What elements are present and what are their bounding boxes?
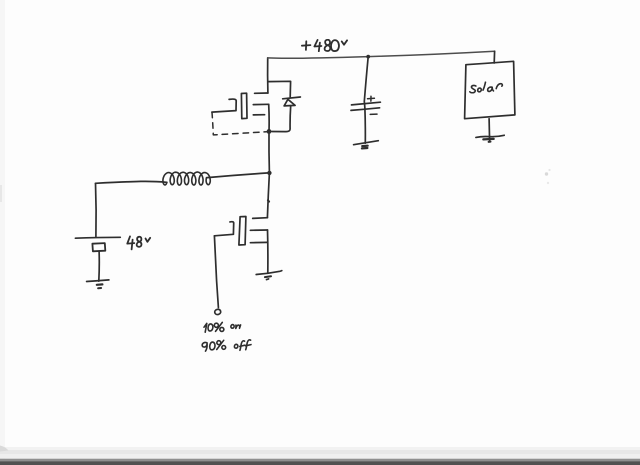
upper MOSFET Q1 gate lead [212, 99, 236, 112]
wire: inductor to node B [207, 173, 268, 178]
wire: rail corner down to solar box [493, 51, 495, 63]
ground (capacitor) [354, 141, 379, 145]
capacitor C1 top plate [352, 102, 381, 105]
diode D1 triangle [284, 99, 295, 106]
upper MOSFET Q1 source bar [253, 103, 268, 105]
ground (solar) [476, 135, 504, 137]
lower MOSFET Q2 drain bar [253, 217, 268, 220]
wire: node B down to lower MOSFET drain [267, 173, 269, 218]
label Solar [470, 82, 503, 93]
node B junction dot [267, 171, 271, 175]
label +480v [302, 40, 347, 52]
label 48v [127, 236, 150, 249]
wire: battery to ground [98, 252, 100, 282]
capacitor C1 bottom plate [351, 108, 380, 111]
wire: +480 rail [268, 51, 495, 58]
upper MOSFET Q1 channel plate [241, 93, 247, 118]
capacitor C1 minus sign [370, 113, 377, 115]
dashed gate drive wire (bootstrap) [212, 112, 267, 135]
wire: battery vertical [95, 183, 98, 236]
solar box [465, 61, 515, 118]
wire: branch to body diode [268, 81, 291, 97]
ground (battery) [87, 280, 109, 282]
gate drive terminal circle [214, 309, 221, 316]
lower MOSFET Q2 channel plate [239, 217, 246, 246]
label 90% off [202, 340, 251, 351]
upper MOSFET Q1 drain bar [255, 92, 268, 94]
wire: node B up to node A [268, 131, 270, 173]
diode D1 anode wire to node A [272, 106, 291, 132]
faint scan smudge [545, 169, 551, 184]
capacitor C1 plus sign [368, 97, 375, 99]
wire: rail through capacitor to ground [364, 57, 368, 144]
wire: source to ground [267, 230, 269, 273]
upper MOSFET Q1 body bar [253, 114, 264, 116]
wire: gate drive down to terminal [214, 236, 218, 308]
battery B1 bottom plate box [92, 243, 105, 251]
inductor L1 [163, 172, 210, 185]
battery B1 top plate [75, 236, 120, 239]
lower MOSFET Q2 body bar [250, 241, 267, 243]
node C junction dot [366, 55, 370, 59]
node A junction dot [267, 129, 272, 134]
small pen blip on drain wire [268, 200, 269, 201]
wire: solar box to ground [488, 119, 491, 142]
lower MOSFET Q2 source bar [250, 229, 267, 231]
wire: drain vertical from rail [267, 58, 269, 93]
ground (lower MOSFET) [256, 271, 282, 275]
diode D1 cathode bar [283, 97, 301, 99]
upper MOSFET Q1 source wire [268, 104, 270, 131]
lower MOSFET Q2 gate lead [214, 222, 233, 236]
scanner bottom bands [0, 447, 640, 450]
label 10% on [204, 322, 241, 332]
wire: battery top horizontal [96, 181, 167, 183]
